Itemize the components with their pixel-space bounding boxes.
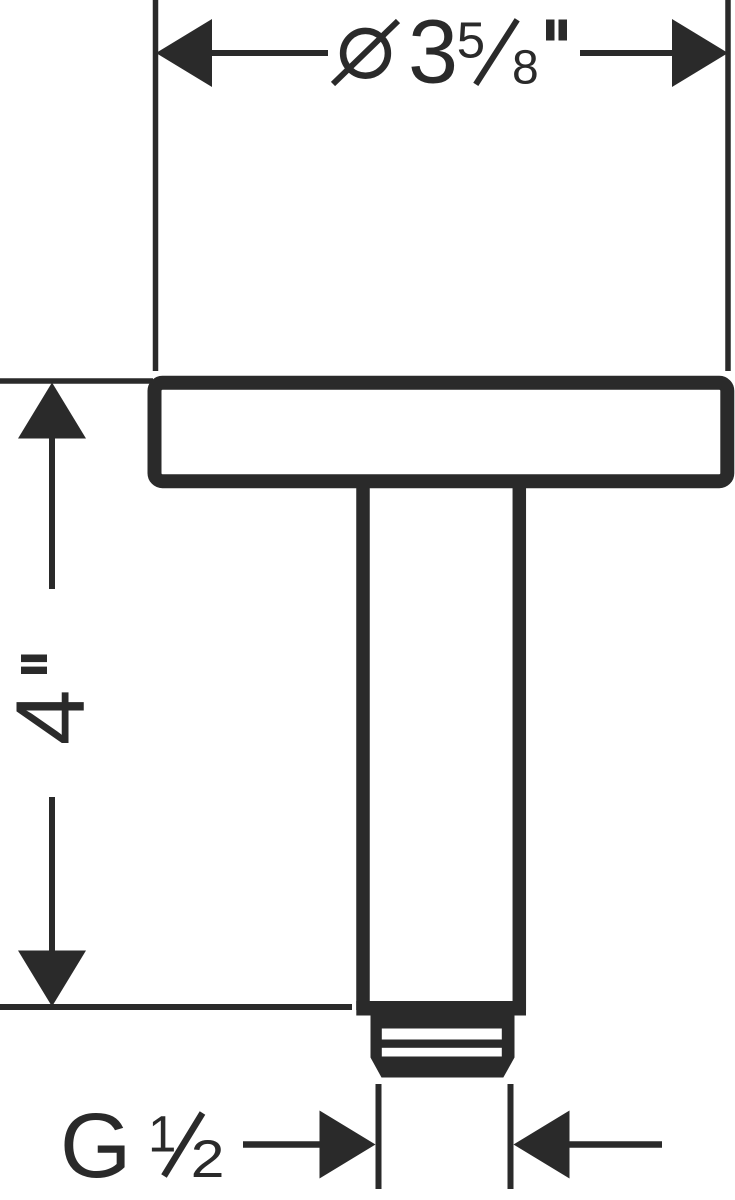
extension line bottom (arm length) xyxy=(0,1004,352,1010)
svg-text:8: 8 xyxy=(512,42,539,95)
extension line left (flange width) xyxy=(153,0,159,371)
stem end cap bar xyxy=(356,1001,526,1016)
extension line top (arm length) xyxy=(0,378,153,384)
svg-text:G: G xyxy=(60,1095,132,1197)
thread size fraction slash xyxy=(164,1113,203,1176)
flange plate (escutcheon) xyxy=(155,383,728,481)
thread dimension line left segment xyxy=(243,1141,322,1148)
thread dimension arrowhead pointing left xyxy=(514,1111,570,1179)
dimension fraction slash xyxy=(476,20,517,85)
top dimension arrowhead left xyxy=(156,19,212,87)
length dimension text inch mark (rotated) xyxy=(21,655,47,663)
thread groove upper xyxy=(382,1029,502,1040)
thread groove lower xyxy=(382,1048,502,1057)
svg-text:1: 1 xyxy=(148,1106,176,1163)
svg-text:5: 5 xyxy=(457,12,485,69)
extension line right (flange width) xyxy=(725,0,731,371)
thread extension line left xyxy=(376,1084,382,1189)
svg-text:2: 2 xyxy=(191,1130,225,1189)
length dimension line lower segment xyxy=(49,797,55,954)
top dimension line right segment xyxy=(580,50,674,56)
stem pipe right wall xyxy=(513,488,527,1010)
thread extension line right xyxy=(508,1084,514,1189)
top dimension arrowhead right xyxy=(672,19,728,87)
stem pipe left wall xyxy=(356,488,370,1010)
length dimension line upper segment xyxy=(49,436,55,589)
svg-text:3: 3 xyxy=(408,3,458,103)
threaded end body xyxy=(371,1014,515,1078)
diameter symbol slash xyxy=(333,21,398,84)
length dimension arrowhead down xyxy=(18,951,86,1007)
top dimension line left segment xyxy=(209,50,328,56)
thread dimension arrowhead pointing right xyxy=(320,1111,376,1179)
dimension text inch mark xyxy=(546,20,555,41)
diameter symbol circle xyxy=(343,31,388,76)
thread dimension line right segment xyxy=(570,1141,663,1148)
length dimension arrowhead up xyxy=(18,383,86,439)
svg-text:4: 4 xyxy=(0,690,104,746)
